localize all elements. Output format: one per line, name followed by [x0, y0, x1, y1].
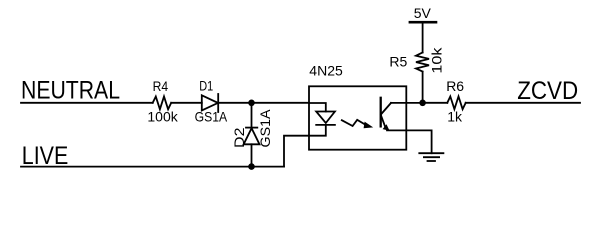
wire node to R6	[423, 102, 448, 104]
wire emitter to ground	[387, 130, 432, 153]
svg-text:ZCVD: ZCVD	[517, 77, 578, 105]
svg-text:D1: D1	[199, 78, 213, 94]
resistor R4	[153, 97, 172, 110]
wire R6 to ZCVD	[466, 102, 580, 104]
wire R5 to output node	[422, 72, 424, 103]
svg-text:R4: R4	[153, 78, 169, 94]
svg-text:100k: 100k	[147, 109, 178, 125]
transistor Q1 phototransistor	[380, 98, 382, 127]
svg-text:GS1A: GS1A	[195, 109, 228, 125]
resistor R5	[416, 53, 429, 72]
diode D2	[246, 127, 257, 129]
wire NEUTRAL to R4	[21, 102, 153, 104]
node junction on NEUTRAL line	[248, 100, 255, 107]
wire node down to D2	[251, 103, 253, 128]
svg-text:NEUTRAL: NEUTRAL	[21, 77, 120, 105]
wire collector to output node	[391, 102, 423, 104]
svg-text:4N25: 4N25	[309, 62, 343, 78]
wire R4 to D1	[171, 102, 202, 104]
svg-text:LIVE: LIVE	[22, 142, 69, 170]
LED inside optocoupler	[309, 103, 326, 112]
ground	[419, 152, 443, 154]
light arrow	[342, 120, 365, 126]
wire D1 to optocoupler	[218, 102, 309, 104]
wire 5V to R5	[422, 24, 424, 53]
svg-text:R6: R6	[446, 78, 464, 94]
svg-text:R5: R5	[389, 53, 407, 69]
svg-text:D2: D2	[231, 127, 247, 148]
svg-text:10k: 10k	[428, 46, 444, 73]
diode D1	[202, 95, 218, 110]
node junction on LIVE line	[248, 163, 255, 170]
optocoupler U1 4N25 box	[309, 86, 406, 149]
wire LIVE	[21, 166, 284, 168]
svg-text:1k: 1k	[447, 109, 463, 125]
svg-text:GS1A: GS1A	[257, 109, 273, 148]
node output junction	[419, 100, 426, 107]
svg-text:5V: 5V	[414, 5, 432, 21]
wire LIVE up to optocoupler cathode pin	[284, 136, 309, 167]
resistor R6	[447, 96, 465, 109]
